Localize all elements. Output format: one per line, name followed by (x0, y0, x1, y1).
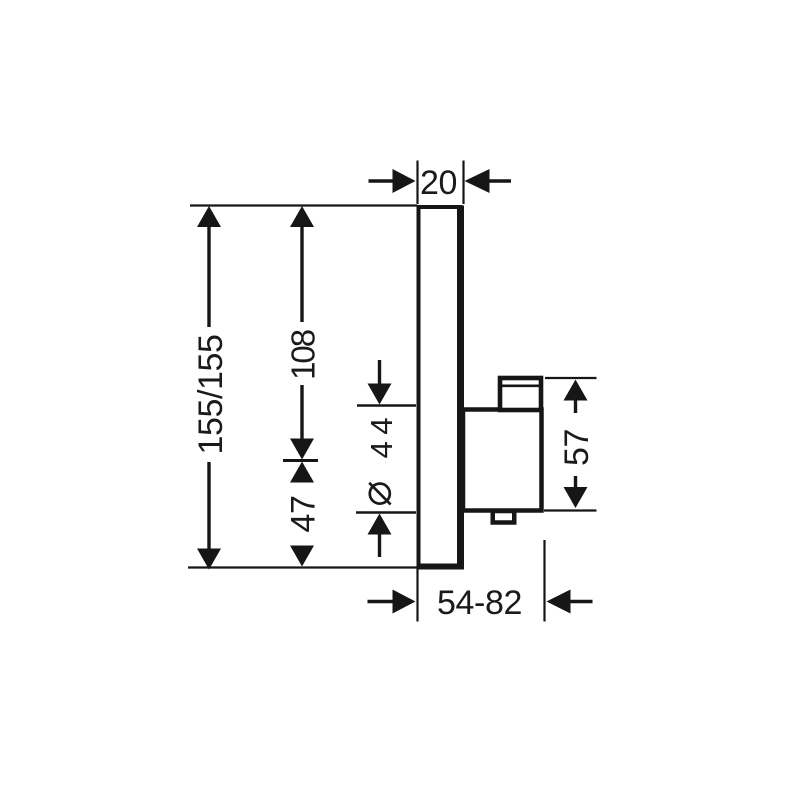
wall plate cross-section (417, 206, 465, 569)
dimension 20: left arrow (369, 169, 416, 193)
dimension 57: bottom arrow (564, 476, 588, 508)
cartridge top cap rectangle (498, 378, 542, 410)
dimension Ø44: diameter symbol (369, 483, 390, 505)
dimension 54-82: right extension line (543, 540, 545, 622)
svg-text:54-82: 54-82 (437, 584, 522, 622)
valve body rectangle (463, 410, 542, 511)
dimension 57: top extension line (545, 377, 597, 379)
dimension 155/155: top arrow (197, 206, 221, 327)
svg-text:155/155: 155/155 (192, 334, 230, 454)
svg-text:108: 108 (284, 330, 321, 380)
dimension 54-82: left extension line (416, 566, 418, 622)
dimension 20: right arrow (465, 169, 512, 193)
dimension 54-82: right arrow (547, 590, 593, 614)
svg-text:47: 47 (284, 495, 322, 532)
dimension Ø44: top tick (357, 404, 416, 407)
dimension Ø44: bottom arrow (368, 514, 392, 558)
dimension 20: right extension line (462, 161, 464, 205)
extension line top-left (plate top level) (190, 204, 417, 206)
svg-text:44: 44 (364, 411, 399, 458)
dimension 108/47: shared tick (283, 459, 318, 462)
dimension 108: bottom arrow (290, 385, 314, 460)
dimension 20: left extension line (416, 161, 418, 205)
dimension 54-82: left arrow (368, 590, 416, 614)
extension line bottom-left (plate bottom level) (188, 566, 417, 568)
dimension 47: top arrow (290, 462, 314, 483)
dimension Ø44: top arrow (368, 360, 392, 405)
dimension 57: bottom extension line (544, 509, 597, 511)
dimension 155/155: bottom arrow (197, 462, 221, 570)
svg-text:20: 20 (420, 164, 457, 202)
dimension 57: top arrow (564, 380, 588, 414)
dimension 47: bottom arrow (290, 546, 314, 567)
svg-text:57: 57 (558, 429, 596, 466)
dimension 108: top arrow (290, 206, 314, 322)
dimension Ø44: bottom tick (356, 511, 416, 514)
bottom tab on valve body (493, 511, 515, 523)
